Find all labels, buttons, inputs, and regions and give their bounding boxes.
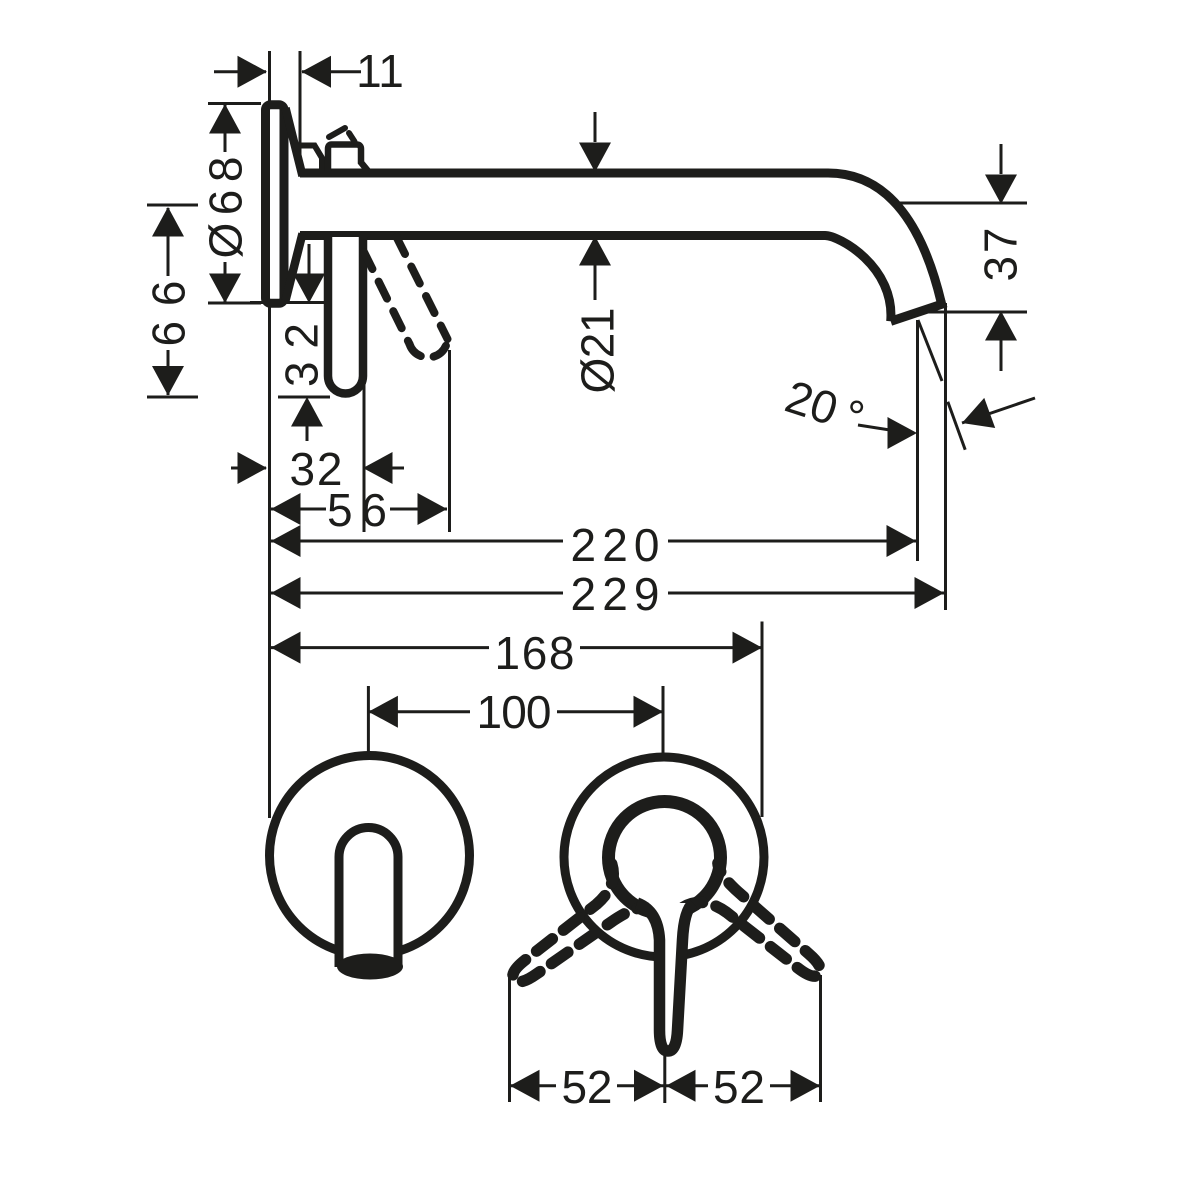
arrow 66 bottom — [152, 366, 184, 396]
wall plate escutcheon side — [266, 105, 285, 304]
wire extension line plate front x300 — [299, 51, 302, 170]
arrow 168 right — [733, 632, 763, 664]
svg-text:52: 52 — [713, 1061, 765, 1113]
wire extension line dashed-lever tip x449 — [448, 350, 451, 532]
arrow 52L right — [634, 1070, 664, 1102]
dimension 32 horizontal — [231, 467, 266, 470]
thin construction and extension lines — [147, 51, 1027, 1103]
wire extension line lever right x364 — [363, 378, 366, 532]
svg-text:56: 56 — [327, 484, 387, 536]
arrow 37 bottom — [985, 311, 1017, 341]
escutcheon circle left — [270, 756, 470, 956]
arrow 56 right — [418, 493, 448, 525]
wire tick spout axis right — [892, 202, 1027, 205]
arrow 56 left — [271, 493, 301, 525]
wire tick 32v top — [250, 301, 325, 304]
spout outlet face — [891, 303, 946, 322]
svg-text:Ø68: Ø68 — [200, 157, 252, 259]
arrow 32v bottom — [291, 397, 323, 427]
front view right: handle escutcheon — [495, 757, 834, 1051]
arrow 100 right — [634, 696, 664, 728]
handle lever swung dashed right front — [495, 864, 646, 999]
handle lever swung dashed right edge — [397, 237, 448, 339]
dimension 220 — [271, 540, 563, 543]
wire extension line 52 left — [508, 977, 511, 1102]
wire wall reference line — [268, 51, 271, 818]
svg-text:37: 37 — [975, 228, 1027, 282]
handle lever swung dashed left front — [683, 863, 834, 998]
arrow 11 left — [238, 56, 268, 88]
arrow 20deg label — [888, 417, 918, 449]
service handle hint dash a — [329, 128, 345, 137]
spout front view tube — [339, 828, 398, 968]
arrow 229 left — [271, 577, 301, 609]
arrow 100 left — [368, 696, 398, 728]
faucet side view — [266, 105, 947, 394]
arrow 32h left — [238, 452, 268, 484]
front view left: spout escutcheon — [270, 756, 470, 980]
dimension 229 — [271, 592, 563, 595]
dimension 37 — [1000, 144, 1003, 174]
handle ring — [609, 802, 721, 914]
arrowheads — [152, 56, 1017, 1102]
cartridge cover — [328, 145, 368, 172]
svg-text:168: 168 — [495, 627, 575, 679]
spout top edge — [300, 173, 941, 303]
svg-text:220: 220 — [571, 519, 660, 571]
wire tick 66 top — [147, 204, 198, 207]
dimension d68 — [224, 104, 227, 152]
arrow 52R left — [666, 1070, 696, 1102]
arrow 20deg angle — [957, 398, 996, 438]
handle lever swung dashed left edge — [364, 252, 410, 344]
leader 20deg label — [858, 425, 890, 430]
dimension 56 — [271, 508, 326, 511]
handle lever swung dashed tip arc — [410, 339, 448, 357]
spout front view mouth ellipse — [337, 954, 403, 980]
dimension 32 vertical — [308, 244, 311, 274]
svg-text:100: 100 — [477, 686, 552, 738]
wire angle construction line 20deg lower — [948, 402, 965, 450]
arrow 37 top — [985, 175, 1017, 205]
dimension texts — [143, 45, 1027, 1113]
wire extension line 168 right — [761, 622, 764, 818]
dimension d21 — [594, 112, 597, 142]
dimension 11 — [214, 70, 266, 73]
svg-text:Ø21: Ø21 — [572, 308, 624, 394]
svg-text:229: 229 — [571, 568, 660, 620]
wire extension line 52 right — [819, 975, 822, 1102]
svg-text:11: 11 — [356, 45, 404, 97]
wire extension line 100 left — [367, 686, 370, 753]
svg-text:66: 66 — [143, 281, 195, 347]
arrow d68 top — [209, 104, 241, 134]
svg-text:32: 32 — [276, 323, 328, 387]
service handle hint dash b — [349, 133, 355, 142]
dimension 100 — [368, 710, 470, 713]
arrow 220 left — [271, 525, 301, 557]
arrow d21 bottom — [579, 236, 611, 266]
arrow 11 right — [302, 56, 332, 88]
dimension 52 left — [510, 1084, 556, 1087]
dimension 168 — [271, 646, 489, 649]
arrow 32h right — [363, 452, 393, 484]
dimension 66 — [167, 208, 170, 276]
arrow d21 top — [579, 143, 611, 173]
svg-text:52: 52 — [562, 1061, 613, 1113]
arrow 52L left — [510, 1070, 540, 1102]
handle lever front view — [637, 903, 693, 1051]
flange top slant — [286, 108, 303, 176]
escutcheon circle right — [564, 757, 764, 957]
wire extension line 52 centre — [663, 1053, 666, 1103]
wire angle construction line 20deg upper — [918, 320, 942, 381]
spout bottom edge — [300, 236, 891, 322]
arrow d68 bottom — [209, 274, 241, 304]
handle lever side view — [328, 237, 363, 394]
arrow 168 left — [271, 632, 301, 664]
wire tick d68 bottom — [208, 302, 261, 305]
dimension lines with arrows — [168, 72, 1035, 1086]
arrow 220 right — [887, 525, 917, 557]
wire extension line outlet inner x917 — [916, 320, 919, 561]
svg-text:20 °: 20 ° — [779, 370, 870, 444]
arrow 32v top — [293, 274, 325, 304]
arrow 66 top — [152, 207, 184, 237]
wire tick 32v bottom — [278, 396, 330, 399]
arrow 229 right — [915, 577, 945, 609]
cartridge step — [299, 146, 322, 171]
wire tick outlet bottom — [914, 311, 1027, 314]
wire extension line outlet outer x945 — [944, 303, 947, 610]
dimension 52 right — [666, 1084, 708, 1087]
flange bottom slant — [286, 234, 303, 301]
wire tick d68 top — [208, 102, 261, 105]
arrow 52R right — [791, 1070, 821, 1102]
wire extension line 100 right — [662, 686, 665, 753]
leader 20deg angle arrow — [962, 398, 1035, 423]
wire tick 66 bottom — [147, 396, 198, 399]
